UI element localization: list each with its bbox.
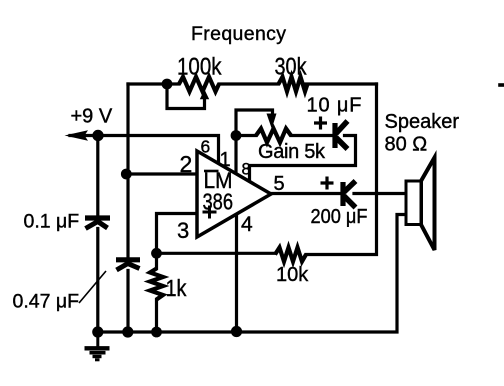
svg-text:30k: 30k: [275, 53, 308, 80]
svg-text:386: 386: [203, 189, 234, 215]
svg-text:5: 5: [274, 173, 285, 195]
svg-text:4: 4: [241, 213, 253, 236]
svg-text:10 μF: 10 μF: [307, 95, 362, 117]
svg-text:2: 2: [180, 151, 193, 177]
svg-text:8: 8: [242, 161, 251, 179]
svg-text:100k: 100k: [177, 53, 222, 80]
svg-text:Gain 5k: Gain 5k: [258, 141, 326, 163]
svg-text:1k: 1k: [166, 275, 187, 301]
svg-text:10k: 10k: [276, 264, 309, 286]
svg-text:Frequency: Frequency: [191, 23, 286, 45]
svg-text:Speaker: Speaker: [385, 111, 460, 133]
svg-text:200 μF: 200 μF: [311, 206, 368, 228]
svg-text:+9 V: +9 V: [71, 106, 113, 128]
svg-text:6: 6: [201, 137, 211, 157]
svg-text:0.47 μF: 0.47 μF: [13, 291, 80, 313]
svg-text:0.1 μF: 0.1 μF: [24, 211, 80, 233]
svg-text:3: 3: [177, 218, 189, 243]
svg-text:80 Ω: 80 Ω: [385, 134, 428, 156]
